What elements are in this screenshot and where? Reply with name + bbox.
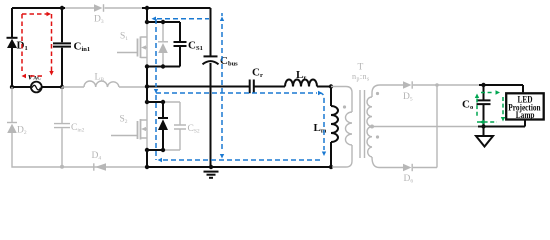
node dot AC right	[60, 85, 64, 89]
inductor LB (gray boost inductor)	[62, 81, 147, 87]
inductor Lm (black, magnetizing)	[330, 87, 332, 168]
wire S1 branch top y=22 (black)	[147, 21, 180, 23]
transformer T (gray): primary winding	[331, 87, 352, 113]
wire output return (black)	[478, 126, 525, 128]
node dot rectifier join (gray)	[435, 83, 439, 87]
wire top rail right (black)	[142, 7, 211, 9]
blue loop left vertical x=156	[155, 19, 157, 160]
blue loop right vertical x=324 with corner	[319, 93, 324, 150]
wire mid rail y=86.5 (black)	[147, 86, 331, 88]
LED Projection Lamp box	[522, 85, 524, 92]
node dots output	[481, 83, 485, 87]
blue loop horizontal y=93	[156, 92, 317, 94]
wire S1 branch bottom y=66.5 (black)	[147, 66, 180, 68]
node dot AC left	[10, 85, 14, 89]
wire top rail left (black)	[12, 7, 65, 9]
capacitor Cin1	[53, 43, 71, 46]
diode D4	[95, 163, 106, 170]
node dots S1 branch	[145, 6, 149, 10]
node dots S2 branch	[145, 100, 149, 104]
polarity dot secondary upper	[376, 92, 379, 95]
capacitor Cr (black, series)	[250, 80, 254, 94]
transformer core	[360, 90, 365, 158]
svg-text:T: T	[358, 63, 364, 73]
wire left rail lower (gray)	[12, 87, 147, 167]
transistor S1 (gray MOSFET)	[117, 37, 147, 59]
diode D3	[94, 4, 103, 12]
wire AC row y=87 (black)	[12, 86, 62, 88]
body diode of S1 (gray)	[162, 22, 164, 67]
node dot Cin2 bottom (gray)	[60, 165, 64, 169]
node dot center tap (gray)	[370, 125, 374, 129]
wire Cin2 rail lower (gray)	[61, 87, 63, 167]
blue loop mid vertical x=222	[221, 13, 223, 152]
transformer secondary lower winding	[367, 127, 372, 158]
node dot top Cin1	[60, 6, 64, 10]
wire S2 branch top y=102: black to diode, gray to CS2	[147, 101, 163, 103]
source vAC	[31, 82, 42, 93]
wire D6 cathode riser (gray)	[436, 85, 438, 168]
capacitor CS1 (black)	[179, 22, 181, 67]
red flux loop (input)	[22, 13, 52, 15]
node dot switch node	[145, 84, 149, 88]
green loop (output cap)	[477, 93, 503, 123]
polarity dot primary	[343, 105, 346, 108]
wire Cin1 rail upper (black)	[61, 8, 63, 87]
svg-text:Lamp: Lamp	[516, 111, 535, 121]
transistor S2 (gray MOSFET)	[111, 119, 147, 140]
node dot Lr/Lm	[329, 84, 333, 88]
wire half-bridge spine x=147 (black parts)	[146, 8, 148, 167]
capacitor Cbus (black) with leg from top rail	[210, 8, 212, 167]
node dots bottom	[145, 165, 149, 169]
diode D2	[7, 122, 17, 124]
wire S1 channel path (gray)	[146, 22, 148, 67]
wire top rail middle (gray, to D3)	[65, 7, 142, 9]
diode D1	[7, 37, 18, 39]
wire left rail upper (black)	[11, 8, 13, 87]
diode D6 (gray)	[379, 167, 403, 169]
wire bottom rail (black)	[147, 166, 331, 168]
wire center tap to output return (gray)	[372, 126, 478, 128]
capacitor CS2 (gray)	[179, 102, 181, 150]
wire S2 branch bottom y=150	[147, 149, 163, 151]
wire output top rail (black)	[479, 84, 523, 86]
polarity dot secondary lower	[376, 135, 379, 138]
ground (bus, bar style)	[204, 171, 219, 173]
transformer secondary upper winding	[372, 85, 380, 97]
body diode of S2 (black, active)	[162, 102, 164, 150]
wire S2 channel path (gray)	[146, 102, 148, 150]
diode D5 (gray)	[380, 84, 403, 86]
blue loop top edge y=18.7	[157, 18, 209, 20]
capacitor Co (black)	[483, 85, 485, 127]
ground output (open triangle)	[483, 127, 485, 137]
blue loop bottom edge y=160	[163, 159, 322, 161]
inductor Lr (black)	[285, 80, 317, 87]
capacitor Cin2	[54, 124, 70, 128]
